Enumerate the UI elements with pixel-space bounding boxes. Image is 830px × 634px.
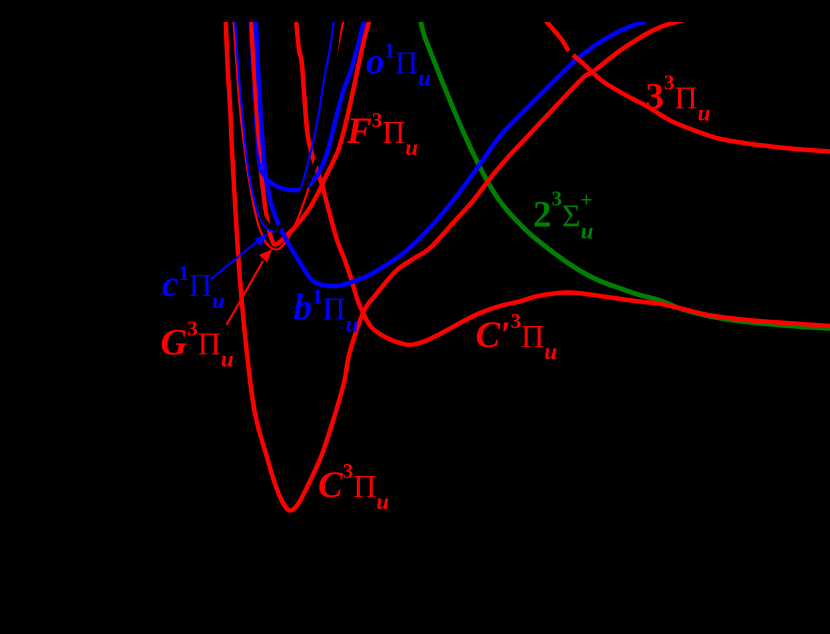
curve 3^3Pi_u segment 1 [546,21,569,51]
curve 2^3Sigma_u+ (green) [419,14,830,329]
curve c1Pi_u (thin blue) [235,14,335,232]
curve F3Pi_u (red) [251,14,370,245]
curve o1Pi_u (blue) [247,14,365,190]
curve b1Pi_u (broad blue) [256,14,647,286]
curve C'3Pi_u (red, shallow well with hump) [296,14,830,345]
curve C3Pi_u (deep red well) [226,14,687,511]
curve G3Pi_u (thin red) [233,14,344,250]
arrow to c1Pi_u [211,234,268,280]
black overlay curve [246,14,339,229]
arrow to G3Pi_u [227,249,273,325]
curve 3^3Pi_u segment 2 [573,55,830,152]
